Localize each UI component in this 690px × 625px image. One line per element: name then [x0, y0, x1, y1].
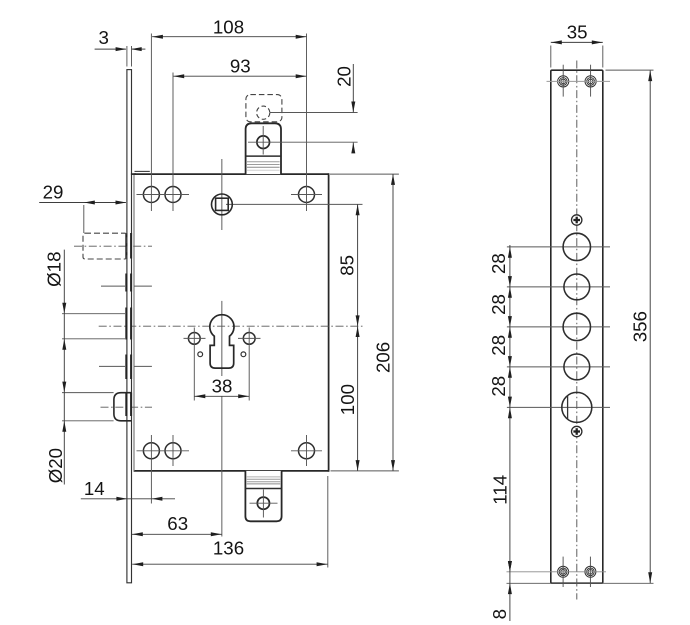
- svg-text:28: 28: [488, 376, 509, 397]
- svg-text:93: 93: [230, 56, 251, 77]
- svg-text:85: 85: [337, 255, 358, 276]
- svg-text:28: 28: [488, 253, 509, 274]
- svg-text:136: 136: [213, 538, 244, 559]
- svg-text:100: 100: [337, 384, 358, 415]
- svg-text:63: 63: [167, 513, 188, 534]
- svg-text:29: 29: [43, 181, 64, 202]
- svg-text:8: 8: [489, 609, 510, 619]
- svg-text:38: 38: [212, 375, 233, 396]
- svg-text:206: 206: [372, 342, 393, 373]
- svg-text:108: 108: [213, 16, 244, 37]
- svg-text:35: 35: [567, 22, 588, 43]
- svg-text:28: 28: [488, 335, 509, 356]
- svg-text:3: 3: [98, 27, 108, 48]
- svg-text:356: 356: [630, 311, 651, 342]
- svg-text:28: 28: [488, 294, 509, 315]
- svg-text:114: 114: [490, 475, 511, 505]
- svg-text:14: 14: [84, 478, 105, 499]
- svg-text:20: 20: [334, 66, 355, 87]
- svg-text:Ø20: Ø20: [45, 448, 66, 483]
- svg-text:Ø18: Ø18: [44, 252, 65, 287]
